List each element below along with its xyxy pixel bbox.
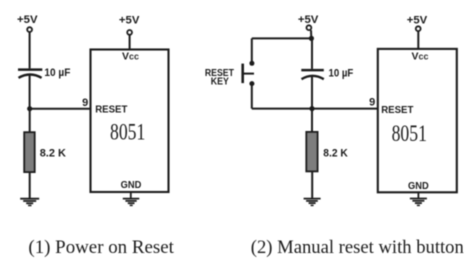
- svg-text:8.2 K: 8.2 K: [40, 147, 66, 159]
- IC U1 8051 body: [91, 50, 169, 193]
- ground (U1 GND pin): [123, 192, 140, 205]
- svg-text:8051: 8051: [392, 121, 427, 147]
- svg-text:+5V: +5V: [407, 15, 428, 27]
- wire: node A to button S1 top: [252, 37, 312, 39]
- svg-text:+5V: +5V: [17, 14, 38, 26]
- svg-text:8.2 K: 8.2 K: [323, 148, 348, 160]
- svg-text:10 µF: 10 µF: [44, 67, 70, 79]
- wire: +5V terminal to U2 Vcc: [417, 31, 419, 49]
- svg-text:(2) Manual reset with button: (2) Manual reset with button: [251, 237, 464, 258]
- svg-text:+5V: +5V: [119, 14, 140, 26]
- wire: node to U1 pin 9: [30, 108, 91, 110]
- ground (U2 GND pin): [410, 192, 427, 205]
- svg-text:Vcc: Vcc: [122, 50, 139, 62]
- svg-text:RESET: RESET: [95, 104, 128, 116]
- wire: button S1 bottom to U2 pin 9 (node B rail): [252, 108, 378, 110]
- resistor R2: [306, 132, 317, 172]
- svg-text:+5V: +5V: [298, 14, 319, 26]
- svg-text:(1) Power on Reset: (1) Power on Reset: [28, 237, 174, 258]
- wire: node to R1: [29, 109, 31, 133]
- wire: +5V terminal to node A: [310, 30, 312, 38]
- +5V terminal (C2 branch): [307, 25, 312, 30]
- svg-text:9: 9: [82, 97, 88, 109]
- wire: R2 to ground: [311, 171, 313, 198]
- capacitor C1: [18, 70, 42, 78]
- label RESET KEY (S1): [205, 67, 235, 88]
- wire: button S1 to bottom rail: [251, 86, 253, 109]
- svg-text:10 µF: 10 µF: [329, 67, 354, 79]
- svg-text:8051: 8051: [110, 120, 145, 146]
- svg-text:GND: GND: [121, 179, 142, 191]
- capacitor C2: [301, 70, 324, 79]
- svg-text:Vcc: Vcc: [412, 51, 429, 63]
- svg-text:RESET: RESET: [381, 104, 414, 116]
- wire: +5V terminal to U1 Vcc: [129, 35, 131, 50]
- wire: node B to R2: [311, 109, 313, 133]
- svg-text:9: 9: [369, 97, 375, 109]
- junction node A: [309, 36, 314, 41]
- ground (below R2): [304, 199, 321, 206]
- wire: R1 to ground: [29, 172, 31, 198]
- junction node B: [309, 106, 314, 111]
- push button S1 (RESET KEY): [242, 61, 254, 86]
- svg-text:GND: GND: [408, 180, 429, 192]
- +5V terminal (U2 Vcc): [416, 26, 421, 31]
- wire: node A to C2: [311, 38, 313, 69]
- IC U2 8051 body: [378, 49, 457, 192]
- svg-text:KEY: KEY: [211, 76, 229, 88]
- wire: C2 to node B: [311, 75, 313, 109]
- wire: +5V terminal to C1: [29, 32, 31, 68]
- +5V terminal (U1 Vcc): [127, 30, 132, 35]
- +5V terminal (C1 branch): [27, 27, 32, 32]
- wire: C1 to node (RESET net ckt1): [29, 75, 31, 109]
- ground (below R1): [20, 199, 39, 206]
- resistor R1: [24, 132, 35, 172]
- junction node (RESET net ckt1): [27, 106, 32, 111]
- wire: top rail to button S1: [251, 38, 253, 61]
